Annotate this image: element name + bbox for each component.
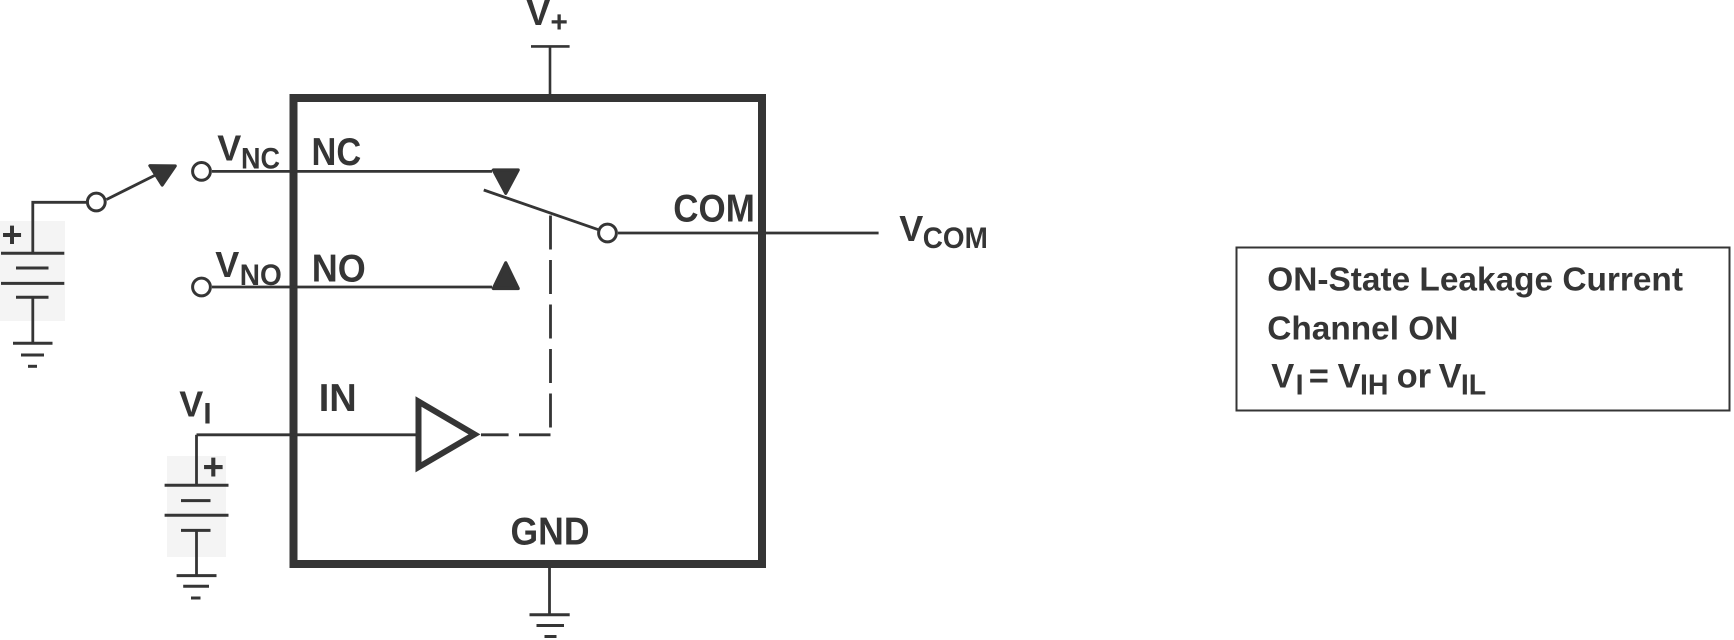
- svg-text:IH: IH: [1360, 370, 1389, 402]
- NC terminal circle: [193, 163, 211, 181]
- wire B2 to ground: [195, 530, 198, 575]
- buffer U1: [419, 402, 475, 468]
- wire V+ to box: [549, 46, 552, 95]
- svg-text:V: V: [899, 208, 923, 249]
- wire GND to ground: [548, 566, 551, 615]
- ground for GND pin: [530, 613, 570, 616]
- svg-text:or: or: [1397, 357, 1432, 395]
- wire NC: [212, 170, 492, 173]
- svg-text:V: V: [217, 128, 241, 169]
- dashed control line horizontal: [481, 433, 551, 436]
- wire B1 top to switch pole: [33, 202, 86, 253]
- svg-text:NC: NC: [312, 131, 362, 174]
- external switch arm: [107, 175, 156, 200]
- svg-text:ON-State Leakage Current: ON-State Leakage Current: [1267, 262, 1683, 299]
- battery B2 plates: [165, 484, 229, 487]
- svg-text:IN: IN: [319, 377, 357, 420]
- svg-text:+: +: [203, 447, 225, 488]
- internal switch arm: [484, 190, 598, 230]
- svg-text:IL: IL: [1461, 370, 1486, 402]
- wire V_I down to battery B2: [195, 435, 198, 485]
- svg-text:COM: COM: [923, 222, 988, 255]
- NC internal arrowhead: [493, 170, 518, 193]
- DUT box outline: [294, 98, 763, 564]
- COM circle: [599, 224, 617, 242]
- faint tint behind battery B1: [0, 221, 65, 321]
- V+ supply terminal bar: [531, 45, 570, 48]
- wire COM: [618, 232, 879, 235]
- svg-text:V: V: [1338, 357, 1361, 395]
- wire IN: [197, 433, 416, 436]
- external switch arrowhead: [150, 166, 175, 185]
- svg-text:V: V: [1439, 357, 1462, 395]
- svg-text:V: V: [215, 244, 239, 285]
- ground for B2: [177, 574, 217, 577]
- svg-text:NO: NO: [312, 247, 366, 290]
- wire NO: [212, 286, 492, 289]
- svg-text:V: V: [1271, 357, 1294, 395]
- svg-text:Channel ON: Channel ON: [1267, 311, 1458, 348]
- svg-text:I: I: [1296, 370, 1304, 402]
- faint tint behind battery B2: [167, 456, 226, 557]
- NO terminal circle: [193, 278, 211, 296]
- switch pole circle: [87, 193, 105, 211]
- svg-text:COM: COM: [673, 188, 755, 231]
- dashed control line vertical: [549, 216, 552, 430]
- note box: [1237, 248, 1730, 411]
- battery B1 plates: [1, 252, 64, 255]
- NO internal arrowhead: [493, 263, 518, 289]
- svg-text:=: =: [1309, 357, 1329, 395]
- svg-text:GND: GND: [511, 511, 590, 554]
- ground for B1: [13, 342, 53, 345]
- wire B1 bottom to ground: [31, 297, 34, 343]
- svg-text:+: +: [2, 214, 23, 255]
